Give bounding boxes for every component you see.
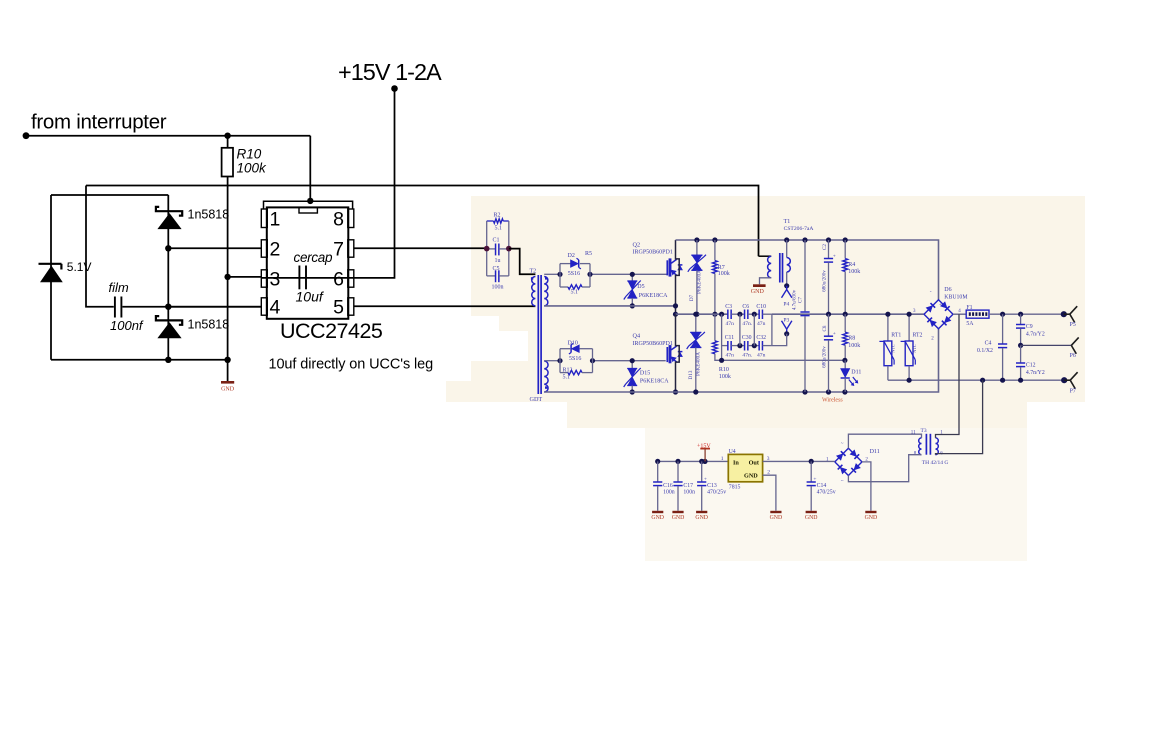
svg-text:R8: R8 — [848, 335, 855, 341]
junction Q4 emitter — [673, 389, 678, 394]
diode D7 P6KE400A — [688, 240, 706, 314]
capacitor cercap 10uf — [294, 250, 334, 305]
svg-text:P3: P3 — [783, 317, 789, 323]
svg-text:6: 6 — [333, 268, 344, 290]
capacitor C2 680u — [822, 240, 836, 314]
svg-text:7: 7 — [333, 238, 344, 260]
wire mid rail right — [772, 313, 924, 315]
svg-text:100n: 100n — [492, 285, 504, 291]
svg-text:F1: F1 — [966, 305, 972, 311]
junction C2 mid — [826, 312, 831, 317]
svg-text:C12: C12 — [1026, 363, 1036, 369]
svg-text:C10: C10 — [756, 304, 766, 310]
ground GND T1 — [751, 284, 766, 295]
svg-text:1u: 1u — [495, 258, 501, 264]
resistor R7 100k — [713, 240, 730, 314]
junction snubber right — [506, 246, 512, 252]
connector P5 — [1061, 306, 1077, 328]
connector P4 — [782, 283, 792, 307]
svg-text:3: 3 — [270, 268, 281, 290]
connector P7 — [1061, 372, 1078, 394]
svg-text:5.1: 5.1 — [563, 375, 571, 381]
svg-text:RT1: RT1 — [891, 332, 901, 338]
capacitor C32 47n — [756, 335, 772, 359]
wire mid rail left — [676, 313, 728, 315]
svg-text:D11: D11 — [851, 369, 861, 375]
junction toprail C2 — [826, 237, 831, 242]
transformer T3 primary winding — [936, 438, 939, 455]
wire pin2 left — [168, 247, 261, 249]
svg-text:2: 2 — [767, 469, 770, 475]
svg-text:NTC: NTC — [891, 344, 896, 353]
svg-text:100k: 100k — [848, 269, 860, 275]
capacitor C16 100n — [651, 461, 674, 521]
junction D7 bottom — [694, 312, 699, 317]
junction D15 bottom — [630, 389, 635, 394]
svg-text:~: ~ — [841, 479, 844, 484]
svg-text:P7: P7 — [1070, 388, 1076, 394]
svg-text:680u/200v: 680u/200v — [823, 346, 828, 368]
wire ladder verticals — [722, 314, 772, 360]
junction C12 bottom — [1018, 378, 1023, 383]
capacitor C8 680u — [822, 314, 836, 392]
svg-text:C1: C1 — [493, 238, 500, 244]
wire T3 pin8 — [848, 455, 921, 482]
power flag +15V — [697, 443, 711, 461]
junction ladder rung1 top — [737, 312, 742, 317]
capacitor C4 X2 — [977, 314, 1007, 380]
resistor R4 100k — [843, 240, 860, 314]
svg-text:+: + — [939, 303, 942, 308]
svg-text:In: In — [733, 460, 739, 467]
junction ladder rung2 top — [752, 312, 757, 317]
wire emitter rail A — [544, 305, 675, 307]
svg-text:UCC27425: UCC27425 — [280, 319, 383, 343]
svg-text:+15V 1-2A: +15V 1-2A — [338, 59, 442, 85]
svg-text:D7: D7 — [689, 294, 695, 301]
resistor R10 — [222, 136, 267, 177]
wire T1 primary top lead — [759, 255, 772, 257]
capacitor C6 47n — [742, 304, 759, 327]
transformer T2 primary winding — [531, 277, 536, 306]
svg-text:NTC: NTC — [912, 344, 917, 353]
svg-text:KBU10M: KBU10M — [944, 295, 967, 301]
svg-text:from interrupter: from interrupter — [31, 111, 167, 134]
svg-text:1: 1 — [270, 209, 281, 231]
svg-text:R4: R4 — [848, 262, 855, 268]
svg-text:P6KE18CA: P6KE18CA — [639, 293, 668, 299]
svg-text:100n: 100n — [683, 490, 695, 496]
capacitor C13 470/25v — [695, 461, 726, 521]
wire interrupter rail — [26, 135, 310, 137]
wire Q4 collector emitter bracket — [676, 314, 680, 392]
svg-text:+: + — [704, 477, 707, 483]
svg-text:GND: GND — [695, 515, 708, 521]
wire T1 left bottom to gnd — [760, 278, 772, 285]
junction psu C16 — [655, 459, 660, 464]
svg-text:U4: U4 — [729, 449, 736, 455]
fuse F1 5A — [966, 305, 989, 327]
svg-text:4.7n/Y2: 4.7n/Y2 — [1026, 370, 1045, 376]
thermistor RT1 — [879, 314, 901, 380]
svg-text:T3: T3 — [921, 428, 927, 434]
op-amp U driver UCC27425 — [261, 201, 354, 319]
svg-text:7815: 7815 — [729, 484, 741, 490]
junction pin2 node — [165, 245, 171, 251]
svg-text:P6: P6 — [1070, 353, 1076, 359]
diode D upper 1n5818 — [156, 207, 229, 229]
capacitor C17 100n — [672, 461, 695, 521]
svg-text:D5: D5 — [637, 284, 644, 290]
junction psu C13 — [699, 459, 704, 464]
wire gateB block sides — [560, 349, 593, 373]
svg-text:GND: GND — [672, 515, 685, 521]
svg-text:C11: C11 — [725, 335, 735, 341]
svg-text:D13: D13 — [688, 370, 694, 379]
svg-text:C5: C5 — [493, 266, 500, 272]
bridge rectifier D6 KBU10M — [913, 287, 968, 342]
svg-text:Out: Out — [749, 460, 760, 467]
wire bottom rail — [51, 359, 228, 361]
junction C9 C12 mid — [1018, 343, 1023, 348]
svg-text:IRGP50B60PD1: IRGP50B60PD1 — [633, 341, 673, 347]
svg-text:5S16: 5S16 — [568, 271, 580, 277]
svg-text:D2: D2 — [568, 253, 575, 259]
junction bottom rail right — [224, 357, 230, 363]
transformer T2 secondary A winding — [544, 277, 548, 306]
svg-text:GND: GND — [865, 515, 878, 521]
svg-text:GND: GND — [744, 473, 758, 480]
wire zener branch — [50, 195, 52, 360]
svg-text:47n.: 47n. — [742, 352, 752, 358]
svg-text:GND: GND — [805, 515, 818, 521]
svg-text:5: 5 — [333, 296, 344, 318]
junction D5 bottom — [630, 303, 635, 308]
transformer T3 secondary winding — [919, 438, 922, 455]
label T1 — [784, 219, 814, 232]
svg-text:R10: R10 — [237, 147, 262, 162]
ground U4 gnd — [770, 511, 783, 521]
junction R4 mid — [843, 312, 848, 317]
wire gate B — [544, 360, 666, 362]
resistor R8 100k — [843, 314, 860, 360]
junction RT2 neutral — [907, 378, 912, 383]
wire U4 gnd — [763, 469, 776, 510]
capacitor C1 — [487, 238, 509, 265]
junction R8 D11 — [842, 358, 847, 363]
svg-text:47n: 47n — [757, 352, 766, 358]
led D11 indicator — [841, 360, 862, 392]
svg-text:C9: C9 — [1026, 324, 1033, 330]
wire pin3 to pin6 internal — [261, 277, 354, 279]
transformer T1 left winding — [768, 256, 772, 278]
svg-text:10uf directly on UCC's leg: 10uf directly on UCC's leg — [269, 357, 434, 373]
junction botrail D13 — [693, 389, 698, 394]
svg-text:47n: 47n — [726, 352, 735, 358]
junction D13 top — [693, 312, 698, 317]
label +15V 1-2A — [338, 59, 442, 85]
junction gateA left — [557, 272, 562, 277]
svg-text:D10: D10 — [568, 341, 578, 347]
transformer T3 core — [926, 434, 930, 455]
label note 10uf — [269, 357, 434, 373]
junction gateA right — [587, 272, 592, 277]
wire fuse to P5 — [989, 313, 1064, 315]
svg-text:R5: R5 — [585, 251, 592, 257]
svg-text:100k: 100k — [719, 374, 731, 380]
svg-text:C7: C7 — [797, 297, 803, 303]
wire pin3 left — [228, 276, 262, 278]
junction film node — [165, 304, 171, 310]
junction snubber left — [484, 246, 490, 252]
svg-text:470/25v: 470/25v — [707, 490, 726, 496]
svg-text:100nf: 100nf — [110, 318, 144, 333]
svg-text:C3: C3 — [725, 304, 732, 310]
svg-text:P5: P5 — [1070, 322, 1076, 328]
junction ladder rung1 bottom — [737, 343, 742, 348]
svg-text:R10: R10 — [719, 367, 729, 373]
svg-text:5.1V: 5.1V — [67, 260, 92, 274]
svg-text:10uf: 10uf — [296, 289, 325, 305]
junction midpoint emitter — [673, 303, 678, 308]
junction C14 top — [809, 459, 814, 464]
wire long feedback line — [86, 186, 759, 257]
svg-text:GND: GND — [651, 515, 664, 521]
capacitor C7 4.7u — [793, 240, 810, 392]
transformer T1 core — [780, 253, 783, 283]
svg-text:4.7n/Y2: 4.7n/Y2 — [1026, 331, 1045, 337]
svg-text:R2: R2 — [494, 213, 501, 219]
svg-text:~: ~ — [841, 441, 844, 446]
svg-text:C13: C13 — [707, 483, 717, 489]
wire gate A — [544, 273, 667, 275]
junction C4 bottom — [1000, 378, 1005, 383]
svg-text:5S16: 5S16 — [569, 356, 581, 362]
svg-text:C17: C17 — [683, 483, 693, 489]
wire T3 pin6 to neutral — [936, 380, 983, 455]
svg-text:C4: C4 — [985, 341, 992, 347]
regulator U4 7815 — [728, 449, 762, 490]
junction botrail C7 — [802, 389, 807, 394]
svg-text:1: 1 — [721, 456, 724, 462]
svg-text:GND: GND — [770, 515, 783, 521]
svg-text:D15: D15 — [640, 371, 650, 377]
capacitor C10 47n — [756, 304, 772, 327]
svg-text:2: 2 — [270, 238, 281, 260]
junction botrail C8 — [826, 389, 831, 394]
transformer T2 core — [530, 269, 542, 395]
label T3 — [911, 428, 949, 466]
wire pin7 out — [354, 247, 487, 249]
diode D lower 1n5818 — [156, 316, 229, 338]
diode D13 P6KE400A — [687, 314, 705, 392]
wire T3 pin1 to mains — [936, 314, 960, 438]
svg-text:C16: C16 — [663, 483, 673, 489]
svg-text:P6KE400A: P6KE400A — [697, 270, 703, 294]
junction R7 bottom — [712, 312, 717, 317]
svg-text:4: 4 — [270, 296, 281, 318]
junction gateB left — [557, 358, 562, 363]
transistor Q4 IRGP50B60PD1 — [633, 333, 683, 364]
svg-text:C14: C14 — [817, 483, 827, 489]
svg-text:cercap: cercap — [294, 250, 334, 265]
wire pin5 out — [354, 305, 536, 307]
svg-text:GND: GND — [221, 387, 235, 393]
svg-text:Q2: Q2 — [633, 241, 641, 248]
junction toprail C7 — [802, 237, 807, 242]
svg-text:8: 8 — [333, 209, 344, 231]
svg-text:0.1/X2: 0.1/X2 — [977, 348, 993, 354]
ground GND left circuit — [221, 381, 235, 393]
resistor R12 — [560, 368, 593, 381]
label watermark red — [822, 397, 843, 403]
node +15V — [391, 85, 398, 92]
svg-text:RT2: RT2 — [913, 332, 923, 338]
svg-text:680u/200v: 680u/200v — [823, 270, 828, 292]
svg-text:C2: C2 — [822, 244, 828, 250]
svg-text:GND: GND — [751, 289, 765, 295]
svg-text:CST206-7aA: CST206-7aA — [784, 226, 814, 232]
svg-text:5A: 5A — [966, 321, 974, 327]
junction C9 top — [1018, 312, 1023, 317]
connector P6 — [1021, 337, 1079, 359]
svg-text:100k: 100k — [718, 271, 730, 277]
svg-text:P4: P4 — [783, 301, 789, 307]
junction RT1 mid — [885, 312, 890, 317]
capacitor C14 470/25v — [805, 461, 836, 521]
svg-text:C30: C30 — [742, 335, 752, 341]
ground D11 gnd — [865, 511, 878, 521]
diode D10 5S16 — [560, 341, 593, 363]
junction R10 ladder — [719, 358, 724, 363]
svg-text:C6: C6 — [742, 304, 749, 310]
svg-text:100n: 100n — [663, 490, 675, 496]
junction UCC top — [307, 198, 313, 204]
svg-text:D6: D6 — [944, 287, 951, 293]
svg-text:Wireless: Wireless — [822, 397, 843, 403]
wire R10 to gnd — [227, 177, 229, 382]
svg-text:+: + — [813, 477, 816, 483]
transistor Q2 IRGP50B60PD1 — [633, 241, 683, 276]
wire bridge to fuse — [953, 313, 966, 315]
svg-text:film: film — [109, 280, 129, 295]
zener D zener 5.1V — [39, 260, 92, 282]
svg-text:1n5818: 1n5818 — [188, 317, 230, 331]
wire to UCC pin1 top — [309, 136, 311, 202]
junction pin3 tap — [224, 274, 230, 280]
junction midpoint rail — [673, 312, 678, 317]
wire U4 out — [763, 456, 835, 462]
junction psu 15v — [702, 459, 707, 464]
svg-text:47n: 47n — [757, 321, 766, 327]
svg-text:Q4: Q4 — [633, 333, 641, 340]
svg-text:T1: T1 — [784, 219, 791, 225]
svg-text:470/25v: 470/25v — [817, 490, 836, 496]
svg-text:GDT: GDT — [530, 396, 543, 403]
svg-text:+: + — [833, 253, 836, 259]
wire zener loop top — [51, 194, 168, 196]
svg-text:+: + — [833, 331, 836, 337]
wire pin7 to T2 primary — [509, 249, 536, 275]
wire gateA block sides — [560, 264, 590, 287]
svg-text:100k: 100k — [237, 161, 268, 176]
svg-text:3: 3 — [767, 456, 770, 462]
label UCC27425 — [280, 319, 383, 343]
transformer T1 right winding — [787, 240, 791, 286]
junction bottom diode — [165, 357, 171, 363]
resistor R5 — [560, 285, 590, 296]
svg-text:P6KE400A: P6KE400A — [696, 352, 702, 376]
junction toprail D7 — [694, 237, 699, 242]
junction RT2 mid — [907, 312, 912, 317]
svg-text:100k: 100k — [848, 343, 860, 349]
capacitor C11 47n — [722, 335, 745, 359]
junction D5 top — [630, 272, 635, 277]
junction gateB right — [590, 358, 595, 363]
node from-interrupter — [23, 132, 30, 139]
svg-text:D11: D11 — [870, 449, 880, 455]
svg-text:5.1: 5.1 — [571, 290, 579, 296]
resistor R2 — [487, 213, 509, 232]
capacitor C12 Y2 — [1016, 345, 1045, 380]
svg-text:1n5818: 1n5818 — [188, 208, 230, 222]
diode D15 P6KE18CA — [624, 361, 670, 392]
svg-text:T2: T2 — [530, 269, 537, 275]
junction botrail D11 — [842, 389, 847, 394]
label GDT — [530, 396, 543, 403]
junction psu C17 — [675, 459, 680, 464]
connector P3 — [772, 317, 792, 345]
transformer T2 secondary B winding — [544, 361, 548, 392]
label from interrupter — [31, 111, 167, 134]
junction D15 top — [630, 358, 635, 363]
junction ladder left top — [719, 312, 724, 317]
wire film to pin4 — [122, 306, 261, 308]
capacitor C30 47n — [742, 335, 759, 359]
capacitor C9 Y2 — [1016, 314, 1045, 345]
junction toprail R7 — [712, 237, 717, 242]
svg-text:-: - — [930, 289, 932, 295]
svg-text:IRGP50B60PD1: IRGP50B60PD1 — [633, 250, 673, 256]
wire top dc rail — [676, 240, 939, 300]
wire pin4 left — [168, 306, 261, 308]
wire snubber block sides — [487, 221, 509, 276]
svg-text:C32: C32 — [756, 335, 766, 341]
junction T3 neutral tap — [980, 378, 985, 383]
svg-text:5.1: 5.1 — [495, 226, 503, 232]
wire bottom rail — [544, 329, 938, 392]
wire Q2 collector emitter bracket — [676, 240, 680, 314]
junction R10 top — [224, 133, 230, 139]
diode D2 5S16 — [560, 251, 592, 277]
wire D11 to gnd — [862, 462, 871, 511]
junction toprail T1 — [784, 237, 789, 242]
svg-text:TH 42/14 G: TH 42/14 G — [922, 460, 949, 466]
resistor R10 100k blue — [713, 314, 845, 380]
wire +15V to pin6 — [354, 89, 395, 278]
junction C4 top — [1000, 312, 1005, 317]
capacitor film 100nf — [109, 280, 144, 333]
wire psu rail — [658, 456, 729, 462]
wire neutral line — [888, 379, 1064, 381]
bridge rectifier D11 aux — [826, 441, 880, 484]
diode D5 P6KE18CA — [624, 274, 668, 306]
schematic cream background — [446, 196, 1085, 561]
svg-text:47n.: 47n. — [742, 321, 752, 327]
wire left loop outer — [86, 186, 114, 307]
wire diode chain — [167, 195, 169, 360]
capacitor C5 — [487, 266, 509, 291]
